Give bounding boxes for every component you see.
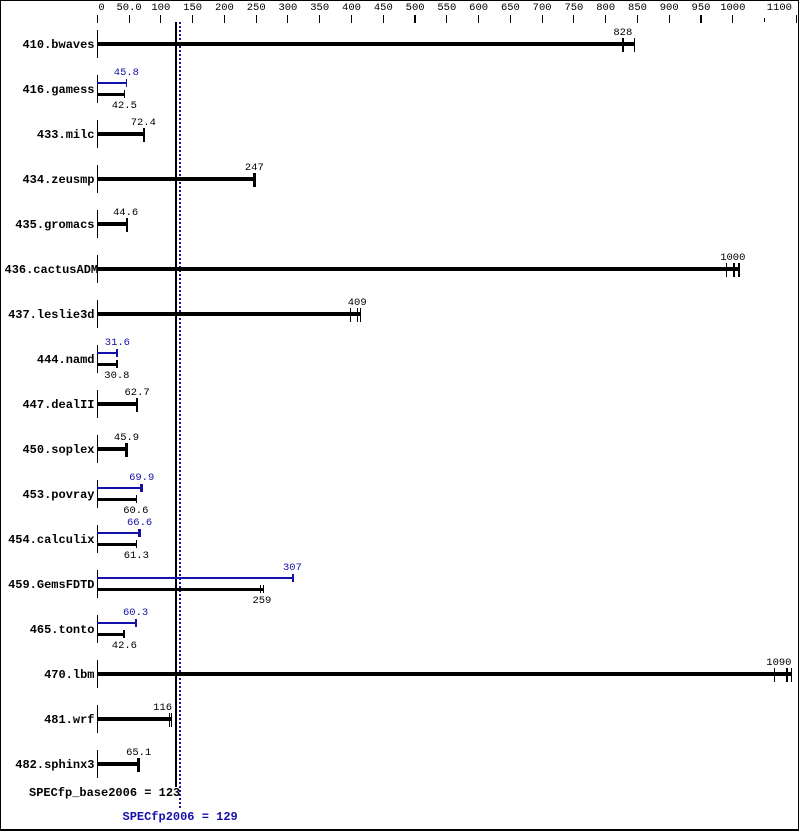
peak mean dotted reference line (129)	[179, 22, 181, 810]
row 482.sphinx3	[5, 758, 95, 772]
row 435.gromacs	[5, 218, 95, 232]
row 481.wrf	[5, 713, 95, 727]
bottom border thickening	[0, 829, 799, 831]
row 454.calculix	[5, 533, 95, 547]
footer: SPECfp_base2006 mean	[29, 786, 180, 800]
row 450.soplex	[5, 443, 95, 457]
row 437.leslie3d	[5, 308, 95, 322]
row 434.zeusmp	[5, 173, 95, 187]
row 433.milc	[5, 128, 95, 142]
footer: SPECfp2006 mean	[123, 810, 238, 824]
row 459.GemsFDTD	[5, 578, 95, 592]
row 416.gamess	[5, 83, 95, 97]
row 465.tonto	[5, 623, 95, 637]
row 470.lbm	[5, 668, 95, 682]
row 453.povray	[5, 488, 95, 502]
row 436.cactusADM	[5, 263, 95, 277]
top axis ticks and labels	[97, 15, 98, 23]
row 444.namd	[5, 353, 95, 367]
row 410.bwaves	[5, 38, 95, 52]
row 447.dealII	[5, 398, 95, 412]
base mean reference line (123)	[175, 22, 177, 787]
